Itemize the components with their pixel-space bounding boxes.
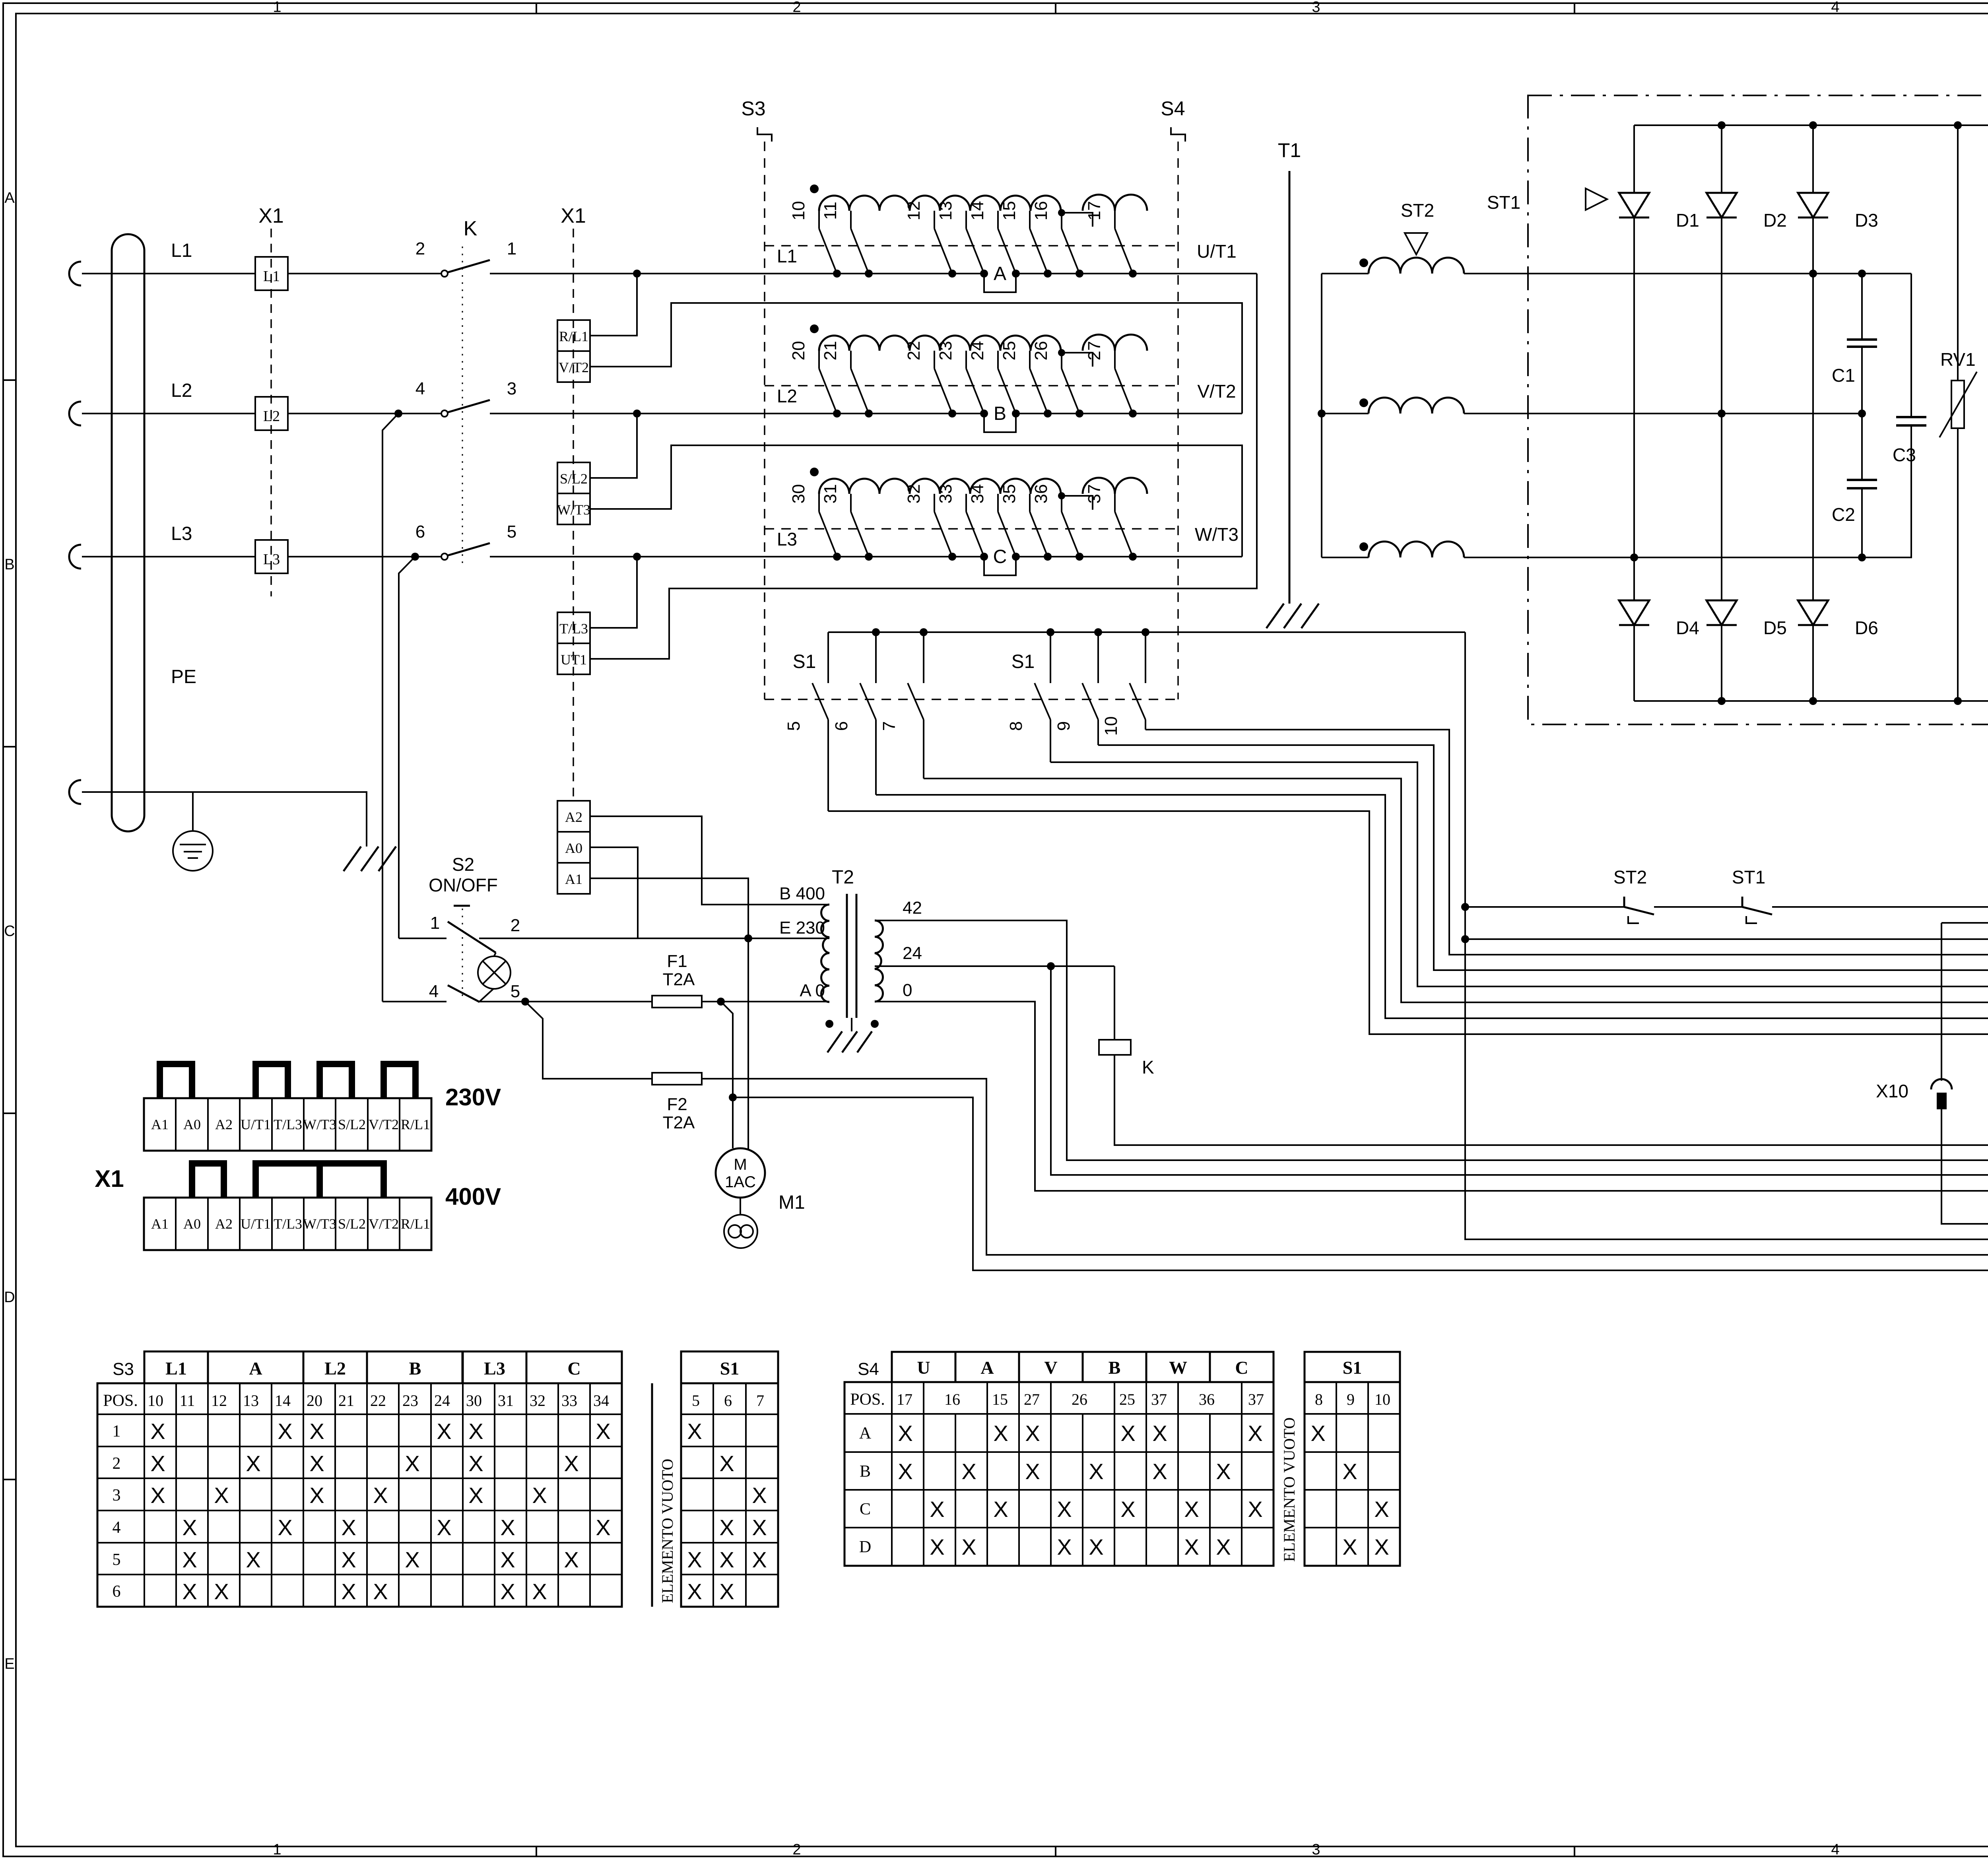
wire T2 42V xyxy=(875,920,1988,1160)
wire 8 row with X10 xyxy=(1941,922,1988,924)
svg-text:T2: T2 xyxy=(832,867,854,888)
terminal X1-L1 box xyxy=(255,257,288,290)
table S3 S1 columns xyxy=(681,1351,778,1383)
svg-text:1AC: 1AC xyxy=(725,1173,756,1191)
svg-text:X: X xyxy=(532,1579,547,1604)
wire W/T3 to winding C output xyxy=(590,445,1242,557)
svg-text:X: X xyxy=(1089,1459,1103,1484)
svg-text:A2: A2 xyxy=(215,1116,233,1132)
transformer T1 core line xyxy=(1289,171,1291,604)
wire L3 to contactor K xyxy=(288,556,441,557)
terminal X1 pin T/L3 xyxy=(557,612,590,643)
svg-text:8: 8 xyxy=(1006,721,1026,731)
svg-text:31: 31 xyxy=(821,484,840,504)
svg-text:7: 7 xyxy=(756,1392,764,1410)
wire T1 secondary 2 to bridge xyxy=(1464,413,1862,414)
svg-text:X: X xyxy=(1120,1497,1135,1522)
svg-text:7: 7 xyxy=(879,721,899,731)
tap 16 stub and blade xyxy=(1061,211,1062,229)
svg-text:POS.: POS. xyxy=(850,1390,885,1409)
svg-text:23: 23 xyxy=(402,1392,418,1410)
svg-text:14: 14 xyxy=(968,201,987,221)
svg-text:17: 17 xyxy=(897,1390,912,1408)
wire bus A to output xyxy=(1169,273,1257,274)
bridge bottom rail / X5 wire xyxy=(1634,700,1988,702)
protective earth symbol xyxy=(192,792,194,831)
wire S1 contact 8 to X9 xyxy=(1050,762,1988,986)
selector dashed bar row B xyxy=(765,385,1178,386)
svg-text:PE: PE xyxy=(171,666,196,687)
svg-text:33: 33 xyxy=(561,1392,577,1410)
svg-text:X: X xyxy=(1248,1421,1262,1446)
wire R/L1 to L1 node xyxy=(590,274,637,336)
svg-text:X: X xyxy=(500,1515,515,1540)
tap 21 stub and blade xyxy=(850,351,852,369)
switch S2 actuator xyxy=(454,905,470,907)
svg-text:X: X xyxy=(1248,1497,1262,1522)
svg-text:X: X xyxy=(719,1547,734,1572)
svg-text:E 230: E 230 xyxy=(779,918,825,938)
svg-text:32: 32 xyxy=(530,1392,546,1410)
svg-text:X: X xyxy=(564,1547,579,1572)
node wire7 xyxy=(1461,935,1469,943)
svg-text:X: X xyxy=(596,1419,610,1444)
svg-text:X: X xyxy=(1120,1421,1135,1446)
svg-text:X: X xyxy=(930,1497,944,1522)
svg-text:X: X xyxy=(468,1419,483,1444)
svg-text:L1: L1 xyxy=(263,268,280,285)
svg-text:31: 31 xyxy=(498,1392,514,1410)
svg-text:27: 27 xyxy=(1024,1390,1040,1408)
node D3 phase1 xyxy=(1809,270,1817,278)
tap 27 stub and blade xyxy=(1114,351,1116,369)
svg-text:X: X xyxy=(930,1534,944,1559)
svg-text:X: X xyxy=(437,1515,451,1540)
svg-text:V: V xyxy=(1044,1357,1057,1378)
node L3 branch to S2 xyxy=(411,553,419,561)
svg-text:21: 21 xyxy=(338,1392,354,1410)
tap 11 stub and blade xyxy=(850,211,852,229)
terminal strip X1 230V configuration xyxy=(144,1098,431,1151)
signal lamp S2 xyxy=(478,956,511,989)
winding B tap link 16-17 xyxy=(1058,349,1065,356)
svg-text:U/T1: U/T1 xyxy=(241,1116,271,1132)
svg-text:400V: 400V xyxy=(445,1183,501,1210)
wire A1 to E230 line xyxy=(590,878,748,938)
dashed lead line X1 column xyxy=(270,229,272,596)
node A0 branch to wire xyxy=(729,1093,737,1101)
svg-text:1: 1 xyxy=(507,239,516,258)
S1 contact 10 xyxy=(1142,628,1149,636)
svg-text:W/T3: W/T3 xyxy=(303,1216,336,1232)
svg-text:42: 42 xyxy=(903,898,922,918)
T1 secondary common rail xyxy=(1321,274,1322,557)
wire branch L3 to S2 contact 1 xyxy=(399,557,415,938)
contactor K contact 2-1 (L1) xyxy=(441,270,448,277)
wire M1 right lead xyxy=(747,938,749,1150)
terminal X1 pin A2 xyxy=(557,801,590,832)
node D6 bottom xyxy=(1809,697,1817,705)
svg-text:X: X xyxy=(1184,1497,1199,1522)
svg-text:X: X xyxy=(405,1547,419,1572)
svg-text:X: X xyxy=(1374,1534,1389,1559)
svg-text:10: 10 xyxy=(148,1392,163,1410)
wire A2 to T2 B400 xyxy=(590,816,829,905)
tap 26 stub and blade xyxy=(1061,351,1062,369)
transformer T2 primary coil xyxy=(821,905,830,1002)
svg-text:A0: A0 xyxy=(183,1216,201,1232)
wire 24V to connector row xyxy=(1051,966,1988,1175)
svg-text:35: 35 xyxy=(1000,484,1019,504)
svg-text:E: E xyxy=(4,1656,14,1672)
svg-text:X: X xyxy=(182,1579,197,1604)
svg-text:B: B xyxy=(1109,1357,1121,1378)
svg-text:5: 5 xyxy=(507,522,516,542)
wire L2 input xyxy=(82,413,254,414)
tap 22 stub and blade xyxy=(934,351,935,369)
svg-text:S/L2: S/L2 xyxy=(560,471,588,487)
svg-text:L3: L3 xyxy=(263,551,280,568)
winding A tap link 16-17 xyxy=(1058,209,1065,216)
svg-text:D: D xyxy=(859,1538,871,1556)
wire T/L3 to L3 node xyxy=(590,557,637,628)
svg-text:X: X xyxy=(752,1515,767,1540)
svg-text:S1: S1 xyxy=(793,651,816,672)
svg-text:1: 1 xyxy=(273,1841,281,1858)
svg-text:X: X xyxy=(596,1515,610,1540)
thermostat ST2 symbol (triangle) xyxy=(1405,233,1427,254)
svg-text:T1: T1 xyxy=(1278,139,1301,161)
svg-text:V/T2: V/T2 xyxy=(369,1216,399,1232)
input terminal L1 hook xyxy=(69,262,81,285)
svg-text:X: X xyxy=(898,1459,912,1484)
svg-text:X: X xyxy=(182,1515,197,1540)
svg-text:C: C xyxy=(4,923,15,940)
svg-text:X: X xyxy=(1374,1497,1389,1522)
bridge top rail (+) xyxy=(1634,124,1988,126)
svg-text:D5: D5 xyxy=(1763,617,1787,638)
wire S1 contact 9 to X9 xyxy=(1098,745,1988,970)
wire branch to F2 xyxy=(525,1002,652,1079)
svg-text:R/L1: R/L1 xyxy=(401,1116,430,1132)
tap 37 stub and blade xyxy=(1114,494,1116,512)
wire K to winding L1 tap xyxy=(490,273,837,274)
S1 contact 8 xyxy=(1046,628,1054,636)
svg-text:L1: L1 xyxy=(171,240,192,261)
svg-text:32: 32 xyxy=(904,484,924,504)
svg-text:B: B xyxy=(4,556,14,573)
svg-text:2: 2 xyxy=(792,0,801,16)
svg-text:22: 22 xyxy=(370,1392,386,1410)
dash-dot enclosure rectifier xyxy=(1528,95,1988,724)
svg-text:X: X xyxy=(373,1579,388,1604)
winding C coil xyxy=(819,479,1061,494)
svg-text:4: 4 xyxy=(429,982,439,1001)
svg-text:2: 2 xyxy=(511,916,520,935)
svg-text:V/T2: V/T2 xyxy=(369,1116,399,1132)
svg-text:X: X xyxy=(150,1419,165,1444)
svg-text:ST2: ST2 xyxy=(1613,867,1647,887)
svg-text:L2: L2 xyxy=(263,408,280,425)
svg-text:X: X xyxy=(214,1483,229,1508)
svg-text:230V: 230V xyxy=(445,1084,501,1111)
svg-text:U/T1: U/T1 xyxy=(241,1216,271,1232)
node 24V branch xyxy=(1047,962,1055,970)
ground (chassis) PE xyxy=(344,847,361,871)
svg-text:W/T3: W/T3 xyxy=(303,1116,336,1132)
svg-text:24: 24 xyxy=(968,341,987,361)
svg-text:X1: X1 xyxy=(258,204,284,227)
T1 secondary winding xyxy=(1322,557,1369,558)
svg-text:L3: L3 xyxy=(484,1358,505,1378)
wire L1 input xyxy=(82,273,254,274)
bus bar A xyxy=(837,274,1169,292)
svg-text:X: X xyxy=(246,1451,260,1476)
svg-text:D4: D4 xyxy=(1676,617,1699,638)
wire A0 branch to connector row xyxy=(733,1097,1988,1270)
wire K to winding L2 tap xyxy=(490,413,837,414)
table S4 S1 columns xyxy=(1305,1352,1400,1382)
svg-text:X: X xyxy=(150,1483,165,1508)
svg-text:1: 1 xyxy=(273,0,281,16)
svg-text:L2: L2 xyxy=(171,380,192,401)
wire A0 branch down xyxy=(721,1002,733,1148)
svg-text:34: 34 xyxy=(593,1392,609,1410)
svg-text:D3: D3 xyxy=(1855,210,1878,231)
winding B coil xyxy=(819,336,1061,351)
svg-text:ST1: ST1 xyxy=(1487,192,1520,213)
svg-text:X: X xyxy=(719,1579,734,1604)
svg-text:16: 16 xyxy=(1031,201,1051,221)
svg-text:25: 25 xyxy=(1000,341,1019,361)
svg-text:X: X xyxy=(687,1547,702,1572)
diode D3 xyxy=(1812,125,1814,193)
svg-text:X: X xyxy=(1184,1534,1199,1559)
svg-text:X: X xyxy=(961,1459,976,1484)
tap 12 stub and blade xyxy=(934,211,935,229)
wire L1 to contactor K xyxy=(288,273,441,274)
svg-text:2: 2 xyxy=(415,239,425,258)
svg-text:0: 0 xyxy=(903,980,912,1000)
svg-text:3: 3 xyxy=(507,379,516,398)
svg-text:A: A xyxy=(249,1358,262,1378)
svg-text:12: 12 xyxy=(904,201,924,221)
svg-text:X: X xyxy=(309,1451,324,1476)
svg-text:X: X xyxy=(1216,1459,1231,1484)
svg-text:X: X xyxy=(1089,1534,1103,1559)
wire S1 contact 6 to X9 xyxy=(876,795,1988,1018)
svg-text:X1: X1 xyxy=(561,204,586,227)
svg-text:D6: D6 xyxy=(1855,617,1878,638)
svg-text:9: 9 xyxy=(1347,1390,1355,1408)
svg-text:S1: S1 xyxy=(1343,1357,1362,1378)
svg-text:M1: M1 xyxy=(779,1192,805,1213)
svg-text:13: 13 xyxy=(243,1392,259,1410)
tap 35 stub and blade xyxy=(1029,494,1031,512)
svg-text:37: 37 xyxy=(1151,1390,1167,1408)
svg-text:A1: A1 xyxy=(151,1216,169,1232)
svg-text:S4: S4 xyxy=(1161,97,1185,120)
svg-text:5: 5 xyxy=(692,1392,700,1410)
svg-text:A: A xyxy=(980,1357,994,1378)
svg-text:X: X xyxy=(1152,1421,1167,1446)
svg-text:K: K xyxy=(464,217,478,240)
svg-text:21: 21 xyxy=(821,341,840,361)
capacitor C1 xyxy=(1861,274,1863,340)
svg-text:5: 5 xyxy=(784,721,804,731)
svg-text:20: 20 xyxy=(789,341,808,361)
svg-text:X: X xyxy=(373,1483,388,1508)
svg-text:X: X xyxy=(500,1579,515,1604)
svg-text:A1: A1 xyxy=(151,1116,169,1132)
node M1 branch on A0 wire xyxy=(717,998,725,1006)
svg-text:27: 27 xyxy=(1085,341,1104,361)
svg-text:T2A: T2A xyxy=(663,970,695,989)
wire V/T2 to winding B output xyxy=(590,303,1242,414)
contactor K contact 4-3 (L2) xyxy=(441,410,448,417)
tap 10 stub and blade xyxy=(818,211,820,229)
svg-text:U: U xyxy=(917,1357,930,1378)
svg-text:X: X xyxy=(468,1451,483,1476)
svg-text:B: B xyxy=(994,403,1006,424)
svg-text:10: 10 xyxy=(1101,716,1121,736)
svg-text:D: D xyxy=(4,1289,15,1306)
capacitor C2 xyxy=(1861,414,1863,480)
wire T1 secondary 1 to bridge xyxy=(1464,273,1911,274)
wire 9 row (thermostat to X9) xyxy=(1772,906,1988,908)
svg-text:26: 26 xyxy=(1031,341,1051,361)
svg-text:L3: L3 xyxy=(171,523,192,544)
svg-text:6: 6 xyxy=(724,1392,732,1410)
wire bus B to output xyxy=(1169,413,1242,414)
wire S1 contact 5 to X9 xyxy=(828,811,1988,1034)
svg-text:X: X xyxy=(564,1451,579,1476)
S1 contact 6 xyxy=(872,628,880,636)
svg-text:X: X xyxy=(687,1579,702,1604)
tap 30 stub and blade xyxy=(818,494,820,512)
svg-text:8: 8 xyxy=(1315,1390,1323,1408)
svg-text:X: X xyxy=(341,1515,356,1540)
wire 7 row xyxy=(1465,938,1988,940)
relay coil K xyxy=(1114,966,1115,1040)
node L1/R-L1 junction xyxy=(633,270,641,278)
svg-text:T/L3: T/L3 xyxy=(559,621,588,637)
svg-text:C2: C2 xyxy=(1832,504,1855,525)
svg-text:14: 14 xyxy=(275,1392,291,1410)
selector S1 bus xyxy=(828,631,1465,633)
wire PE xyxy=(82,792,367,847)
svg-text:X: X xyxy=(500,1547,515,1572)
svg-text:U/T1: U/T1 xyxy=(1197,241,1237,262)
T1 secondary winding xyxy=(1322,273,1369,274)
tap 31 stub and blade xyxy=(850,494,852,512)
svg-text:X1: X1 xyxy=(95,1165,124,1192)
svg-text:X: X xyxy=(719,1451,734,1476)
tap 20 stub and blade xyxy=(818,351,820,369)
node A1 junction xyxy=(744,934,752,942)
svg-text:X: X xyxy=(341,1579,356,1604)
svg-text:A: A xyxy=(994,263,1006,284)
svg-text:15: 15 xyxy=(992,1390,1008,1408)
input terminal PE hook xyxy=(69,780,81,804)
svg-text:6: 6 xyxy=(832,721,851,731)
svg-text:5: 5 xyxy=(113,1551,121,1569)
table S4 elemento vuoto column xyxy=(1273,1382,1275,1566)
svg-text:26: 26 xyxy=(1072,1390,1087,1408)
diode D5 xyxy=(1706,600,1737,625)
node L2/S-L2 junction xyxy=(633,410,641,417)
node D3 top xyxy=(1809,121,1817,129)
wire E230 line xyxy=(638,938,829,939)
wire L2 to contactor K xyxy=(288,413,441,414)
terminal strip X1 400V configuration xyxy=(144,1198,431,1250)
svg-text:X: X xyxy=(150,1451,165,1476)
terminal X1 pin V/T2 xyxy=(557,351,590,382)
svg-text:A: A xyxy=(859,1424,872,1443)
svg-text:T/L3: T/L3 xyxy=(274,1116,302,1132)
svg-text:X10: X10 xyxy=(1876,1081,1908,1101)
svg-text:9: 9 xyxy=(1054,721,1074,731)
svg-text:S2: S2 xyxy=(452,854,474,875)
svg-text:S3: S3 xyxy=(741,97,765,120)
svg-text:ST2: ST2 xyxy=(1401,200,1434,221)
selector dashed bar row C xyxy=(765,528,1178,530)
wire K to winding L3 tap xyxy=(490,556,837,557)
svg-text:K: K xyxy=(1142,1057,1154,1078)
wire T2 0V xyxy=(875,1002,1988,1191)
svg-text:S3: S3 xyxy=(113,1359,134,1379)
zone tick marks and labels xyxy=(536,3,537,14)
svg-text:F1: F1 xyxy=(667,951,687,971)
bus bar B xyxy=(837,414,1169,432)
thyristor ST1 symbol (triangle) xyxy=(1586,188,1607,210)
svg-text:L2: L2 xyxy=(777,386,797,406)
svg-text:X: X xyxy=(1310,1421,1325,1446)
node L2 branch to S2 xyxy=(394,410,402,417)
svg-text:A2: A2 xyxy=(565,809,582,825)
svg-text:R/L1: R/L1 xyxy=(401,1216,430,1232)
terminal X1 pin R/L1 xyxy=(557,320,590,351)
svg-text:24: 24 xyxy=(434,1392,450,1410)
diode D2 xyxy=(1721,125,1722,193)
svg-text:A0: A0 xyxy=(183,1116,201,1132)
tap 32 stub and blade xyxy=(934,494,935,512)
svg-text:10: 10 xyxy=(1375,1390,1390,1408)
wire A0 to S2 contact 2 xyxy=(590,847,638,938)
svg-text:36: 36 xyxy=(1199,1390,1215,1408)
svg-text:22: 22 xyxy=(904,341,924,361)
svg-text:S1: S1 xyxy=(720,1358,740,1378)
diode D4 xyxy=(1619,600,1649,625)
terminal X1 pin A1 xyxy=(557,863,590,894)
wire bus C to output xyxy=(1169,556,1242,557)
terminal X1 pin A0 xyxy=(557,832,590,863)
svg-text:X: X xyxy=(309,1483,324,1508)
svg-text:ELEMENTO VUOTO: ELEMENTO VUOTO xyxy=(658,1459,676,1603)
wire S/L2 to L2 node xyxy=(590,414,637,478)
wire UT1 to winding A output xyxy=(590,274,1257,659)
svg-text:L3: L3 xyxy=(777,529,797,549)
svg-text:S/L2: S/L2 xyxy=(338,1216,366,1232)
tap 25 stub and blade xyxy=(1029,351,1031,369)
svg-text:10: 10 xyxy=(789,201,808,221)
svg-text:X: X xyxy=(752,1547,767,1572)
tap 33 stub and blade xyxy=(965,494,967,512)
dashed lead line X1 pin column xyxy=(573,229,574,801)
svg-text:1: 1 xyxy=(430,913,440,933)
svg-text:R/L1: R/L1 xyxy=(559,328,588,344)
svg-text:A: A xyxy=(4,190,15,206)
